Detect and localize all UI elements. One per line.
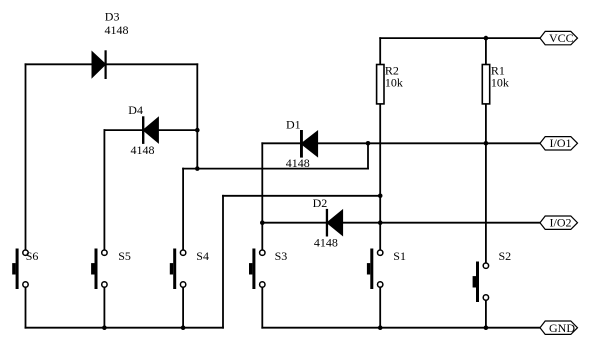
junction dot I/O1 Z-tap xyxy=(366,141,371,146)
wire S3 bottom stub xyxy=(261,287,263,327)
svg-text:S6: S6 xyxy=(26,249,39,263)
switch S6 xyxy=(12,249,38,290)
wire left bottom rail xyxy=(26,327,224,329)
svg-text:4148: 4148 xyxy=(314,235,338,249)
junction dot VCC-R1 xyxy=(484,36,489,41)
junction dot GND rail S1 xyxy=(378,325,383,330)
svg-text:D3: D3 xyxy=(105,10,120,24)
wire S5 bottom stub xyxy=(103,287,105,327)
wire R2 column xyxy=(379,38,381,250)
net flag GND xyxy=(540,321,578,335)
svg-text:D2: D2 xyxy=(313,196,328,210)
svg-text:S2: S2 xyxy=(499,249,512,263)
wire vertical to S3 xyxy=(261,143,263,250)
diode D2 xyxy=(313,196,344,249)
diode D4 xyxy=(128,103,159,157)
wire I/O1 line xyxy=(262,142,540,144)
diode D3 xyxy=(92,10,129,79)
wire vertical to S4 xyxy=(182,169,184,250)
junction dot left rail S5 xyxy=(102,325,107,330)
net flag I/O1 xyxy=(540,136,578,150)
wire vertical to S5 xyxy=(103,130,105,250)
net flag I/O2 xyxy=(540,216,578,230)
wire row vertical x223 xyxy=(222,196,224,328)
junction dot I/O2-S1 column xyxy=(378,220,383,225)
diode D1 xyxy=(286,118,318,171)
svg-text:10k: 10k xyxy=(385,76,403,90)
svg-text:S4: S4 xyxy=(196,249,209,263)
svg-text:4148: 4148 xyxy=(105,23,129,37)
svg-text:4148: 4148 xyxy=(131,143,155,157)
net flag VCC xyxy=(540,31,578,45)
wire Z vertical from I/O1 xyxy=(367,143,369,168)
wire right vertical from D3 line xyxy=(196,64,198,168)
wire S2 bottom stub xyxy=(485,300,487,327)
switch S4 xyxy=(170,249,209,290)
switch S5 xyxy=(91,249,131,290)
resistor R2 xyxy=(377,63,403,104)
wire S4 bottom stub xyxy=(182,287,184,327)
wire S6 bottom stub xyxy=(25,287,27,327)
svg-text:S3: S3 xyxy=(275,249,288,263)
switch S2 xyxy=(473,249,512,302)
wire Z horizontal xyxy=(183,168,368,170)
svg-text:GND: GND xyxy=(549,321,575,335)
junction dot y196-S1 column xyxy=(378,194,383,199)
svg-text:D1: D1 xyxy=(286,118,301,132)
junction dot GND rail S2 xyxy=(484,325,489,330)
wire D4 horizontal xyxy=(104,129,197,131)
resistor R1 xyxy=(482,63,509,104)
switch S1 xyxy=(367,249,406,290)
wire row horizontal y196 xyxy=(223,195,380,197)
wire left vertical to S6 xyxy=(25,64,27,250)
svg-text:I/O1: I/O1 xyxy=(550,136,572,150)
svg-text:S5: S5 xyxy=(118,249,131,263)
wire I/O2 line xyxy=(262,222,540,224)
svg-text:I/O2: I/O2 xyxy=(550,216,572,230)
junction dot Z-line x197 xyxy=(195,166,200,171)
junction dot left rail S4 xyxy=(181,325,186,330)
switch S3 xyxy=(249,249,287,290)
wire VCC rail xyxy=(380,37,540,39)
svg-text:4148: 4148 xyxy=(286,156,310,170)
svg-text:S1: S1 xyxy=(393,249,406,263)
wire GND rail xyxy=(262,327,540,329)
junction dot D4-line x197 xyxy=(195,128,200,133)
svg-text:10k: 10k xyxy=(491,76,509,90)
wire S1 bottom stub xyxy=(379,287,381,327)
wire D3 top horizontal xyxy=(26,63,198,65)
junction dot I/O2-S3 column xyxy=(260,220,265,225)
wire R1 column xyxy=(485,38,487,263)
svg-text:D4: D4 xyxy=(128,103,143,117)
svg-text:VCC: VCC xyxy=(549,31,574,45)
junction dot I/O1-R1 xyxy=(484,141,489,146)
